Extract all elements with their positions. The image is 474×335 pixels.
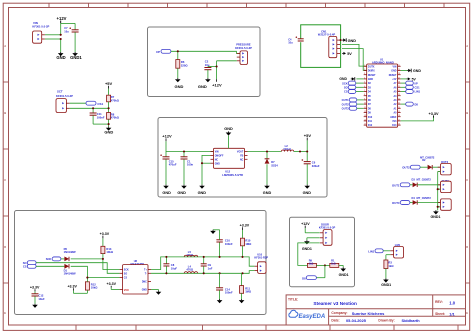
svg-text:GND: GND bbox=[391, 71, 396, 73]
svg-text:10kΩ: 10kΩ bbox=[106, 250, 113, 254]
power flag +12V (VIN block) bbox=[57, 16, 67, 24]
ground GND (U8) bbox=[156, 291, 162, 295]
svg-text:C: C bbox=[4, 178, 6, 182]
svg-text:1N4148W: 1N4148W bbox=[64, 272, 76, 276]
wire GND1 bus (outputs) bbox=[438, 172, 441, 211]
svg-text:D13: D13 bbox=[392, 125, 397, 127]
net label I/P (nano) bbox=[401, 81, 418, 85]
svg-text:100n: 100n bbox=[187, 163, 193, 167]
svg-text:5V: 5V bbox=[412, 77, 417, 81]
net label CS1 (nano) bbox=[401, 85, 421, 89]
connector PRESSURE label bbox=[235, 43, 252, 50]
svg-text:LIN1: LIN1 bbox=[368, 249, 375, 253]
junction dot D7 tap bbox=[266, 150, 268, 152]
ground GND (under C1) bbox=[177, 185, 186, 195]
svg-text:GND1: GND1 bbox=[70, 55, 82, 60]
net label SO (tc) bbox=[23, 261, 36, 265]
ground GND (under R6) bbox=[175, 78, 184, 89]
wire R7 to node bbox=[108, 102, 110, 113]
svg-text:SO: SO bbox=[23, 261, 27, 265]
wire CS to D1 bbox=[36, 265, 64, 267]
connector DOOR label bbox=[319, 222, 336, 229]
svg-text:GND: GND bbox=[303, 191, 312, 195]
connector U9 bbox=[390, 247, 403, 259]
wire D5 to U8 SCK bbox=[71, 259, 120, 270]
svg-text:15: 15 bbox=[364, 124, 366, 126]
wire door pin3 to divider bbox=[298, 243, 320, 266]
diode D2 label bbox=[420, 155, 435, 162]
svg-text:25: 25 bbox=[398, 86, 400, 88]
svg-text:MT_C95872: MT_C95872 bbox=[417, 177, 432, 181]
capacitor C6 bbox=[302, 152, 311, 185]
ground GND (top of box) bbox=[224, 127, 233, 148]
sub-circuit box (door switch) bbox=[290, 217, 355, 287]
svg-text:SCK: SCK bbox=[46, 257, 52, 261]
svg-text:KF301-5.0-3P: KF301-5.0-3P bbox=[235, 46, 252, 50]
connector DOOR KF301-5.0-3P bbox=[320, 230, 332, 246]
svg-text:10kΩ: 10kΩ bbox=[91, 285, 98, 289]
svg-text:1kΩ: 1kΩ bbox=[331, 262, 336, 265]
wire VIN pin1 to +12V node bbox=[45, 34, 61, 36]
svg-text:D3: D3 bbox=[412, 177, 416, 181]
capacitor C1 bbox=[181, 152, 188, 185]
net label OUT2 (nano) bbox=[342, 102, 364, 106]
wire U12 gnd pins bbox=[202, 155, 211, 184]
capacitor C7 bbox=[69, 27, 78, 32]
svg-text:A: A bbox=[466, 44, 468, 48]
svg-text:+5V: +5V bbox=[392, 79, 397, 81]
capacitor C11 label bbox=[97, 112, 105, 119]
EasyEDA logo bbox=[289, 310, 325, 320]
IC U8 MAX31855 bbox=[120, 259, 151, 294]
svg-text:ON/OFF: ON/OFF bbox=[215, 156, 224, 158]
connector U9 label bbox=[395, 243, 401, 247]
svg-text:6: 6 bbox=[364, 86, 365, 88]
svg-text:OUT1: OUT1 bbox=[392, 183, 400, 187]
junction dot CN1 gnd bbox=[340, 39, 342, 41]
connector OUT2 label bbox=[441, 160, 449, 164]
wire +12V rail to C7 bbox=[61, 23, 75, 34]
ground GND (under U12) bbox=[198, 185, 207, 195]
net label I/P bbox=[156, 49, 171, 54]
svg-text:24: 24 bbox=[398, 90, 400, 92]
svg-text:VOUT: VOUT bbox=[237, 152, 244, 154]
svg-text:OUT3: OUT3 bbox=[342, 107, 349, 111]
junction dots output bus bbox=[437, 188, 439, 208]
svg-text:+12V: +12V bbox=[57, 16, 67, 21]
svg-text:A: A bbox=[4, 44, 6, 48]
svg-text:GND: GND bbox=[215, 163, 220, 165]
power flag +5V (buck) bbox=[304, 133, 312, 152]
svg-text:+12V: +12V bbox=[301, 222, 310, 226]
ground GND1 (door top) bbox=[302, 240, 312, 251]
connector U10 label bbox=[254, 252, 268, 259]
svg-text:VIN: VIN bbox=[215, 152, 219, 154]
ground GND (under C12) bbox=[32, 304, 38, 308]
diode D5 label bbox=[64, 247, 76, 254]
svg-text:KF301-5.0-2P: KF301-5.0-2P bbox=[56, 94, 73, 98]
svg-text:E: E bbox=[466, 311, 468, 315]
svg-text:11: 11 bbox=[364, 107, 366, 109]
svg-text:CS: CS bbox=[23, 265, 27, 269]
net label LIN1 (nano) bbox=[401, 90, 421, 94]
wire C11 bottom to R8 bottom bbox=[93, 123, 109, 125]
wire R8 to GND bbox=[108, 119, 110, 126]
wire R3 to GND1 bbox=[385, 269, 387, 279]
title block TITLE bbox=[288, 298, 298, 302]
svg-text:DNC: DNC bbox=[142, 282, 147, 284]
net label OUT1 (nano) bbox=[342, 98, 364, 102]
junction dots C8 bbox=[165, 256, 167, 275]
wire R10 to rail bbox=[242, 246, 244, 257]
svg-text:10uF: 10uF bbox=[171, 266, 178, 270]
net label CS (nano) bbox=[344, 90, 364, 94]
title block REV bbox=[435, 300, 456, 305]
ground GND (under C15) bbox=[162, 185, 171, 195]
svg-text:+12V: +12V bbox=[162, 134, 172, 139]
svg-text:+3.3V: +3.3V bbox=[240, 223, 250, 227]
capacitor C11 bbox=[90, 108, 97, 124]
connector VIN KF301-5.0-2P bbox=[33, 31, 45, 43]
svg-text:Date:: Date: bbox=[331, 319, 339, 323]
inductor L4 label bbox=[186, 265, 193, 272]
ground GND1 (VIN block) bbox=[70, 52, 82, 60]
svg-text:GND: GND bbox=[56, 55, 65, 60]
wire R13 to SCK line bbox=[102, 254, 104, 259]
svg-text:23: 23 bbox=[398, 94, 400, 96]
svg-text:NC: NC bbox=[240, 159, 244, 161]
connector CN1 WJ127-5-5.4P bbox=[329, 36, 340, 57]
ground GND (under R11) bbox=[239, 299, 245, 303]
svg-text:GND: GND bbox=[368, 79, 373, 81]
wire T+ to top rail bbox=[151, 257, 255, 270]
svg-text:EasyEDA: EasyEDA bbox=[299, 314, 326, 320]
junction dot door divider bbox=[324, 264, 326, 266]
wire R11 to GND bbox=[241, 293, 243, 299]
ground GND (above C10) bbox=[210, 230, 216, 234]
wire C7 to GND1 bbox=[74, 32, 76, 52]
power flag +12V (pressure) bbox=[212, 82, 222, 87]
resistor R7 bbox=[107, 95, 120, 102]
ground flag GND (CN1) bbox=[342, 38, 356, 43]
capacitor C4 label bbox=[288, 37, 293, 44]
svg-text:D2: D2 bbox=[422, 158, 426, 162]
IC U12 LM2596S-5.0 bbox=[211, 148, 248, 177]
svg-text:GND1: GND1 bbox=[431, 215, 441, 219]
ground flag GND (nano left) bbox=[339, 77, 363, 81]
junction dot C2 tap bbox=[216, 65, 218, 67]
svg-text:KF301-5.0-2P: KF301-5.0-2P bbox=[32, 25, 49, 29]
svg-text:+3.3V: +3.3V bbox=[30, 285, 40, 289]
svg-text:05-04-2025: 05-04-2025 bbox=[346, 318, 367, 323]
net label SCK (nano) bbox=[342, 81, 364, 85]
diode D7 bbox=[265, 152, 270, 185]
wire input rail bbox=[166, 151, 214, 153]
wire CN1 pin3 to nano D0/RX bbox=[342, 49, 367, 71]
svg-text:5: 5 bbox=[364, 82, 365, 84]
ground GND (SCT block) bbox=[104, 127, 113, 135]
svg-text:AREF: AREF bbox=[390, 116, 397, 119]
junction dot I/P node bbox=[177, 50, 179, 52]
connector U10 thermocouple bbox=[255, 262, 266, 274]
net label SCK (tc) bbox=[46, 257, 61, 261]
svg-text:D: D bbox=[4, 245, 6, 249]
svg-text:21: 21 bbox=[398, 103, 400, 105]
svg-text:VIN: VIN bbox=[33, 21, 38, 25]
wire U8 GND to ground bbox=[151, 290, 159, 291]
capacitor C4 bbox=[296, 36, 304, 42]
ground GND (under C14) bbox=[217, 299, 223, 303]
svg-text:T-: T- bbox=[145, 273, 147, 275]
svg-text:GND1: GND1 bbox=[339, 273, 349, 277]
wire door pin2 to GND1 bbox=[307, 238, 320, 240]
svg-text:3V3: 3V3 bbox=[392, 121, 397, 123]
wire D1 to U8 CS bbox=[71, 266, 120, 277]
wire R5 to GND1 bbox=[339, 265, 343, 267]
svg-text:SO: SO bbox=[124, 273, 128, 275]
svg-text:1: 1 bbox=[364, 65, 365, 67]
svg-text:330uF: 330uF bbox=[312, 164, 320, 168]
svg-text:REV:: REV: bbox=[435, 300, 443, 304]
svg-text:B: B bbox=[4, 111, 6, 115]
svg-text:19: 19 bbox=[398, 111, 400, 113]
junction dot R13 tap bbox=[102, 258, 104, 260]
IC U1 ARDUINO_NANO bbox=[364, 58, 401, 128]
svg-text:OUT4: OUT4 bbox=[392, 201, 400, 205]
resistor R8 bbox=[107, 112, 120, 119]
svg-text:Sunrise Kitchens: Sunrise Kitchens bbox=[352, 311, 385, 316]
resistor R6 bbox=[176, 51, 189, 68]
ground GND (under D7) bbox=[263, 185, 272, 195]
capacitor C15 bbox=[160, 152, 169, 185]
svg-text:OUT2: OUT2 bbox=[402, 166, 410, 170]
capacitor C9 label bbox=[208, 263, 213, 270]
svg-text:1kΩ: 1kΩ bbox=[309, 262, 314, 265]
svg-text:I/P: I/P bbox=[415, 81, 418, 85]
svg-text:FB: FB bbox=[240, 156, 243, 158]
wire VCC from +3.3V bbox=[107, 282, 120, 290]
sub-circuit box (buck converter) bbox=[158, 118, 327, 198]
ground GND (VIN block) bbox=[56, 52, 65, 60]
connector SCT label bbox=[56, 89, 73, 98]
svg-text:29: 29 bbox=[398, 69, 400, 71]
wire T- bottom rail bbox=[151, 271, 255, 274]
svg-text:20: 20 bbox=[398, 107, 400, 109]
connector OUT2 bbox=[438, 164, 452, 175]
svg-text:GND: GND bbox=[263, 191, 272, 195]
svg-text:NC: NC bbox=[215, 159, 219, 161]
net label D8 (door) bbox=[302, 276, 316, 281]
svg-text:SCK: SCK bbox=[342, 81, 348, 85]
svg-text:1.0: 1.0 bbox=[449, 300, 455, 305]
svg-text:13: 13 bbox=[364, 115, 366, 117]
resistor R5 bbox=[330, 259, 339, 268]
junction dots SCT block bbox=[92, 107, 110, 125]
svg-text:12: 12 bbox=[364, 111, 366, 113]
svg-text:+3.3V: +3.3V bbox=[100, 232, 110, 236]
svg-text:+3.3V: +3.3V bbox=[428, 112, 438, 116]
svg-text:D8: D8 bbox=[415, 102, 419, 106]
capacitor C10 bbox=[213, 230, 223, 257]
wire divider to D8 label bbox=[316, 265, 325, 277]
svg-text:CS: CS bbox=[344, 90, 348, 94]
capacitor C8 bbox=[163, 257, 169, 273]
power flag +3.3V (C12) bbox=[30, 285, 40, 293]
net label OUT1 + diode D3 row bbox=[392, 182, 440, 187]
svg-text:D10: D10 bbox=[368, 117, 373, 119]
inductor L4 bbox=[184, 272, 198, 274]
svg-text:RESET: RESET bbox=[368, 75, 376, 77]
resistor R13 bbox=[101, 246, 114, 254]
svg-text:GND: GND bbox=[177, 191, 186, 195]
title block Company bbox=[331, 311, 385, 316]
connector OUT3 bbox=[438, 181, 452, 192]
connector SCT KF301-5.0-2P bbox=[56, 99, 70, 113]
svg-text:Company:: Company: bbox=[331, 311, 347, 315]
wire VIN pin2 to GND bbox=[45, 39, 61, 52]
wire SCT pin1 to CS1 bbox=[70, 102, 86, 104]
svg-text:1nF: 1nF bbox=[208, 266, 213, 270]
svg-text:D8: D8 bbox=[302, 276, 306, 280]
power arrow 5V (CN1) bbox=[342, 52, 352, 56]
net label CS (tc) bbox=[23, 264, 36, 268]
svg-text:1MΩ: 1MΩ bbox=[245, 290, 252, 294]
svg-text:30: 30 bbox=[398, 65, 400, 67]
wire SCT pin2 divider node bbox=[70, 107, 109, 109]
svg-text:1kΩ: 1kΩ bbox=[388, 264, 394, 268]
svg-text:LIN1: LIN1 bbox=[415, 90, 421, 94]
net label SO (nano) bbox=[344, 85, 364, 89]
svg-text:VCC: VCC bbox=[124, 289, 129, 292]
svg-text:SCT: SCT bbox=[57, 89, 63, 93]
svg-text:LM2596S-5.0/TR: LM2596S-5.0/TR bbox=[222, 173, 243, 177]
junction dot +5V tap bbox=[299, 150, 308, 152]
wire +12V to pressure pin3 bbox=[217, 61, 237, 82]
ground GND (under C2) bbox=[198, 78, 211, 89]
capacitor C6 label bbox=[312, 161, 320, 168]
net label OUT4 + diode D4 row bbox=[392, 200, 440, 205]
svg-text:10u: 10u bbox=[64, 29, 69, 33]
svg-text:TITLE:: TITLE: bbox=[288, 298, 298, 302]
connector OUT3 label bbox=[442, 179, 450, 183]
svg-text:D0/RX: D0/RX bbox=[368, 71, 375, 73]
capacitor C2 bbox=[204, 67, 216, 79]
ground GND1 (LIN1) bbox=[381, 278, 391, 287]
svg-text:17: 17 bbox=[398, 119, 400, 121]
power flag +12V (buck) bbox=[162, 134, 172, 152]
svg-text:D1/TX: D1/TX bbox=[368, 66, 375, 68]
svg-text:GND: GND bbox=[142, 290, 147, 292]
capacitor C8 label bbox=[171, 263, 178, 270]
ground flag GND (nano right) bbox=[401, 69, 422, 74]
net label OUT3 (nano) bbox=[342, 106, 364, 110]
wire LIN1 to U9 bbox=[383, 250, 390, 252]
capacitor C12 label bbox=[38, 294, 45, 301]
svg-text:1MΩ: 1MΩ bbox=[245, 242, 252, 246]
svg-text:220Ω: 220Ω bbox=[181, 63, 188, 67]
svg-text:D: D bbox=[466, 245, 468, 249]
power flag +12V (door) bbox=[301, 222, 310, 233]
svg-text:SS34: SS34 bbox=[271, 163, 278, 167]
title block DrawnBy bbox=[378, 318, 420, 323]
svg-text:4: 4 bbox=[364, 77, 365, 79]
svg-text:KF301-R2P: KF301-R2P bbox=[254, 255, 268, 259]
capacitor C15 label bbox=[169, 159, 177, 166]
diode D3 label bbox=[412, 177, 432, 181]
wire U9 pin2 to R3 bbox=[386, 255, 391, 260]
ground GND (under C6) bbox=[303, 185, 312, 195]
wire GND loop (CN1) bbox=[301, 25, 341, 68]
net label OUT2 + diode D2 row bbox=[402, 165, 440, 170]
resistor R3 bbox=[384, 260, 394, 269]
ground GND1 (door bottom) bbox=[339, 267, 349, 276]
capacitor C9 bbox=[201, 257, 207, 273]
wire SCK to D5 bbox=[61, 258, 65, 260]
capacitor C14 bbox=[216, 273, 223, 299]
diode D4 label bbox=[412, 196, 432, 200]
svg-text:Siddharth: Siddharth bbox=[402, 318, 421, 323]
wire R4 to R5 bbox=[316, 264, 329, 266]
svg-text:D11: D11 bbox=[368, 121, 373, 123]
capacitor C1 label bbox=[187, 159, 193, 166]
net label CS1 bbox=[86, 101, 104, 106]
junction dots rail taps bbox=[219, 256, 244, 275]
svg-text:22: 22 bbox=[398, 98, 400, 100]
svg-text:Drawn By:: Drawn By: bbox=[378, 319, 394, 323]
wire nano 3V3 to +3.3V flag bbox=[401, 116, 434, 121]
wire +3.3V to R12 bottom bbox=[73, 290, 87, 293]
svg-text:470kΩ: 470kΩ bbox=[111, 116, 120, 120]
svg-text:+5V: +5V bbox=[304, 133, 312, 138]
svg-text:28: 28 bbox=[398, 73, 400, 75]
resistor R11 bbox=[240, 273, 252, 293]
svg-text:CS1: CS1 bbox=[97, 102, 103, 106]
capacitor C10 label bbox=[225, 239, 233, 246]
svg-text:8: 8 bbox=[364, 94, 365, 96]
svg-text:Steamer v3 Nextion: Steamer v3 Nextion bbox=[313, 301, 357, 306]
svg-text:GND: GND bbox=[348, 39, 357, 43]
svg-text:GND: GND bbox=[413, 69, 421, 73]
junction dot R12 tap bbox=[86, 277, 88, 279]
svg-text:CS: CS bbox=[124, 278, 128, 280]
svg-text:KF301-5.0-3P: KF301-5.0-3P bbox=[319, 226, 336, 230]
net label LIN1 bbox=[368, 249, 383, 254]
capacitor C14 label bbox=[225, 287, 233, 294]
svg-text:GND: GND bbox=[339, 77, 347, 81]
svg-text:+12V: +12V bbox=[212, 82, 222, 87]
capacitor C7 label bbox=[64, 26, 69, 33]
svg-text:D12: D12 bbox=[368, 125, 373, 127]
svg-text:GND: GND bbox=[175, 84, 184, 89]
junction dots VIN block bbox=[60, 34, 62, 40]
sub-circuit box (pressure sensor) bbox=[148, 27, 261, 97]
svg-text:100nF: 100nF bbox=[225, 242, 233, 246]
svg-text:26: 26 bbox=[398, 82, 400, 84]
svg-text:14: 14 bbox=[364, 119, 366, 121]
svg-text:16: 16 bbox=[398, 124, 400, 126]
svg-text:7: 7 bbox=[364, 90, 365, 92]
connector OUT4 label bbox=[441, 197, 449, 201]
svg-text:10u: 10u bbox=[288, 41, 293, 45]
wire output rail bbox=[248, 151, 282, 153]
svg-text:1N4148W: 1N4148W bbox=[64, 250, 76, 254]
diode D5 bbox=[64, 257, 69, 262]
resistor R12 bbox=[85, 282, 98, 290]
inductor L5 label bbox=[186, 250, 193, 257]
svg-text:SO: SO bbox=[344, 86, 348, 90]
title block Date bbox=[331, 318, 366, 323]
svg-text:B: B bbox=[466, 111, 468, 115]
